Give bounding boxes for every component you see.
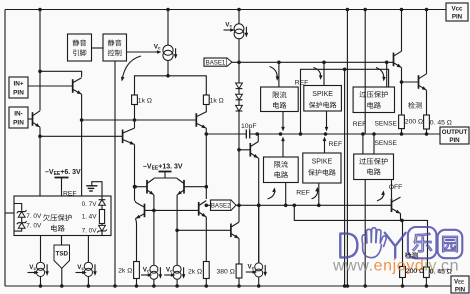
transistor Q5: [239, 142, 259, 160]
wire emitter rail: [154, 177, 177, 179]
annotation arrow into spike row2: [312, 187, 320, 199]
block SPIKE protect row2: [303, 153, 341, 183]
svg-text:2k Ω: 2k Ω: [188, 269, 202, 276]
zener Z1 7.0V: [17, 210, 42, 220]
wire Q1 collector link: [40, 71, 82, 77]
svg-text:Vc: Vc: [77, 264, 84, 271]
svg-text:OUTPUT: OUTPUT: [442, 129, 468, 136]
wire Q10 Q11 collectors: [154, 177, 177, 180]
label -VEE+13.3V: [143, 164, 183, 179]
svg-text:0. 45 Ω: 0. 45 Ω: [430, 120, 452, 127]
block mute pin 静音引脚: [68, 34, 92, 61]
svg-text:REF: REF: [296, 189, 310, 196]
annotation arrow into limiter row2: [268, 187, 277, 199]
wire mute link: [92, 47, 104, 49]
label SENSE row2: [375, 140, 398, 147]
current source I4 Vc: [76, 236, 97, 288]
wire mute control to current source: [127, 50, 162, 54]
wire Q1 emitter column: [80, 94, 84, 196]
wire mid rail: [257, 132, 440, 136]
wire R5 bottom: [401, 278, 405, 288]
resistor R10 380: [216, 264, 241, 278]
wire Q7 emitter: [426, 90, 428, 115]
current source I6 Vc: [164, 265, 185, 288]
resistor R1 1k: [132, 95, 152, 105]
svg-text:PIN: PIN: [449, 137, 460, 144]
wire Q4 emitter column: [205, 128, 209, 207]
zener Z3 7.0V: [82, 224, 107, 236]
svg-text:Vc: Vc: [248, 264, 255, 271]
annotation arrow into spike row1: [314, 68, 323, 81]
svg-text:Vc: Vc: [29, 264, 36, 271]
node right columns bottom: [343, 284, 349, 288]
label OFF: [389, 184, 403, 191]
wire base line y120: [82, 118, 197, 122]
resistor R9 2k: [188, 262, 209, 279]
wire sense lower link: [294, 205, 427, 267]
wire limiter row1 down arrow: [281, 112, 285, 132]
current source I1 Vc: [154, 8, 178, 78]
label REF row1: [295, 80, 309, 87]
pin box Vcc PIN: [446, 3, 468, 21]
label SENSE mid right: [375, 121, 398, 128]
wire Q8 emitter: [400, 214, 402, 221]
watermark url: [332, 258, 459, 275]
annotation arrow into ovp row2 OFF: [377, 190, 385, 201]
transistor Q2 (IN-): [28, 111, 41, 129]
resistor R3 200: [399, 115, 424, 129]
diode D4 0.7V: [82, 196, 106, 208]
wire Q5 collector: [255, 132, 259, 141]
wire ovp row2 risers: [363, 134, 374, 154]
svg-text:BASE1: BASE1: [206, 59, 226, 66]
svg-text:BASE2: BASE2: [211, 203, 231, 210]
node BASE2: [211, 200, 237, 210]
transistor Q6: [394, 51, 403, 69]
wire Q7 collector: [425, 8, 429, 74]
svg-text:TSD: TSD: [55, 251, 68, 258]
block TSD: [54, 236, 70, 288]
svg-text:–VEE+6. 3V: –VEE+6. 3V: [45, 169, 81, 177]
svg-text:Vc: Vc: [166, 267, 173, 274]
wire column x344: [344, 69, 346, 286]
block current limiter 限流电路 row1: [261, 87, 299, 112]
svg-text:0. 7V: 0. 7V: [82, 201, 98, 208]
label REF mid right: [353, 121, 367, 128]
svg-text:Vc: Vc: [225, 22, 232, 29]
block overvoltage protect 过压保护 row1: [353, 87, 394, 113]
wire Q10 emitter col: [152, 195, 156, 265]
wire Q9 base line: [177, 229, 231, 231]
wire riser to spike box: [323, 62, 325, 85]
wire Q9 emitter col: [238, 239, 240, 265]
diode D3: [236, 100, 243, 111]
wire R3 bottom: [401, 129, 403, 134]
svg-text:380 Ω: 380 Ω: [216, 269, 234, 276]
svg-text:PIN: PIN: [13, 120, 24, 127]
watermark logo DIY: [340, 227, 462, 258]
node mute column bottom: [113, 284, 117, 288]
wire spike row2 to base2 line: [317, 183, 321, 207]
wire REF stem: [61, 178, 63, 196]
wire lower 200 column: [402, 220, 404, 266]
pin box VEE PIN: [451, 276, 469, 294]
wire limiter row2 to base2 line: [284, 183, 288, 208]
svg-text:2k Ω: 2k Ω: [118, 268, 132, 275]
transistor Q11: [176, 179, 206, 197]
transistor Q12: [135, 202, 199, 220]
wire zener chain loop: [14, 204, 22, 232]
capacitor C1 10pF: [206, 123, 257, 139]
svg-text:SPIKE: SPIKE: [312, 159, 333, 166]
block SPIKE protect row1: [304, 86, 342, 112]
resistor R2 1k: [203, 95, 223, 105]
annotation arrow into limiter row1: [270, 67, 280, 82]
wire Q6 collector: [400, 8, 404, 52]
svg-text:1k Ω: 1k Ω: [138, 98, 152, 105]
wire column x365: [363, 8, 367, 288]
current source I3 Vc: [28, 236, 49, 288]
transistor Q3: [123, 128, 136, 146]
wire spike row1 down arrow: [325, 111, 329, 132]
wire riser to ovp box: [386, 62, 388, 87]
current source I2 Vc: [224, 8, 249, 63]
wire Q12 collector col: [135, 201, 136, 202]
wire Q9 collector: [238, 205, 240, 222]
ground symbol: [86, 182, 102, 196]
wire Q5 emitter column: [257, 158, 261, 263]
wire BASE1 line: [232, 61, 394, 65]
resistor R6 0.45 lower: [424, 267, 452, 278]
svg-text:OFF: OFF: [389, 184, 403, 191]
svg-text:–VEE+13. 3V: –VEE+13. 3V: [143, 164, 183, 172]
resistor R7 1.4V: [82, 205, 105, 223]
wire resistor top rail: [135, 76, 207, 95]
wire Vcc top rail: [5, 9, 446, 11]
svg-text:200 Ω: 200 Ω: [406, 268, 424, 275]
svg-text:SENSE: SENSE: [375, 121, 398, 128]
resistor R8 2k: [118, 262, 139, 279]
wire border to block: [5, 212, 14, 214]
svg-text:Vc: Vc: [143, 267, 150, 274]
wire BASE2 line: [206, 204, 391, 208]
wire mute control down: [114, 61, 116, 286]
block overvoltage protect 过压保护 row2: [354, 154, 394, 180]
svg-text:Vc: Vc: [154, 44, 161, 51]
wire R1 bottom: [134, 105, 136, 121]
wire left border: [4, 10, 6, 287]
wire R6 bottom: [425, 278, 429, 288]
label lower resistor overlay: [405, 252, 452, 275]
wire riser to limiter box: [278, 62, 280, 87]
wire diode column: [237, 111, 241, 207]
svg-text:Vcc: Vcc: [451, 6, 463, 13]
svg-text:VEE: VEE: [454, 279, 464, 286]
svg-text:PIN: PIN: [452, 14, 463, 21]
svg-text:200 Ω: 200 Ω: [405, 119, 423, 126]
transistor Q13: [199, 201, 208, 219]
svg-text:1. 4V: 1. 4V: [82, 214, 98, 221]
zener Z2 7.0V: [17, 221, 42, 229]
label REF bottom mid: [296, 189, 310, 196]
wire Q3 emitter column: [133, 145, 137, 201]
svg-text:SENSE: SENSE: [375, 140, 398, 147]
svg-text:IN-: IN-: [14, 111, 23, 118]
wire R9 bottom: [205, 279, 209, 288]
block mute control 静音控制: [103, 34, 127, 61]
transistor Q10: [133, 179, 155, 197]
wire VEE bottom rail: [5, 285, 451, 287]
transistor Q8: [392, 180, 402, 216]
wire R10 bottom: [237, 278, 241, 288]
diode D2: [236, 89, 243, 100]
pin box OUTPUT PIN: [440, 127, 469, 144]
block undervoltage 欠压保护电路: [14, 196, 111, 236]
transistor Q7: [419, 74, 428, 92]
wire Q3 collector: [134, 120, 136, 128]
svg-text:IN+: IN+: [13, 81, 23, 88]
wire R8 bottom: [135, 279, 139, 288]
current source I5 Vc: [141, 265, 162, 288]
wire base line y136: [40, 135, 123, 137]
block current limiter 限流电路 row2: [264, 157, 299, 183]
current source I7 Vc: [246, 205, 267, 288]
diode D1: [236, 62, 243, 88]
transistor Q9: [231, 222, 240, 240]
svg-text:PIN: PIN: [455, 287, 466, 294]
svg-text:PIN: PIN: [13, 90, 24, 97]
label detect 检测 bottom: [405, 252, 418, 258]
wire Q11 emitter col: [175, 195, 179, 265]
wire limiter row2 up arrow: [281, 137, 285, 158]
wire Q12 emitter col: [136, 219, 137, 262]
wire Q2 column down: [39, 136, 41, 196]
svg-text:7. 0V: 7. 0V: [26, 213, 42, 220]
svg-text:REF: REF: [329, 141, 343, 148]
annotation mute arc arrow: [120, 56, 141, 82]
wire Q2 emitter to node: [38, 127, 42, 138]
wire REF feed line: [301, 68, 389, 135]
wire column x347: [346, 8, 350, 286]
wire Q7 base link: [402, 81, 419, 83]
wire R2 bottom: [205, 105, 207, 113]
wire Q13 emitter col: [205, 217, 207, 262]
pin box IN- PIN: [9, 107, 28, 128]
wire spike row2 up arrow: [323, 137, 327, 154]
svg-text:7. 0V: 7. 0V: [26, 223, 42, 230]
svg-text:10pF: 10pF: [241, 123, 257, 130]
node BASE1: [204, 58, 232, 66]
resistor R4 0.45: [424, 115, 452, 129]
transistor Q1 (IN+): [28, 78, 82, 96]
label -VEE+6.3V: [45, 169, 81, 178]
svg-text:SPIKE: SPIKE: [312, 91, 333, 98]
wire x40 column: [38, 8, 42, 111]
wire R4 bottom: [426, 129, 428, 134]
label detect 检测 top: [408, 102, 422, 109]
annotation arrow into ovp row1: [376, 68, 386, 82]
svg-text:1k Ω: 1k Ω: [210, 98, 224, 105]
pin box IN+ PIN: [9, 77, 28, 98]
transistor Q4: [196, 112, 207, 130]
resistor R5 200 lower: [400, 267, 425, 278]
wire Q6 emitter: [400, 68, 404, 115]
svg-text:0. 45 Ω: 0. 45 Ω: [430, 269, 452, 276]
label REF row2: [329, 141, 343, 148]
svg-text:REF: REF: [353, 121, 367, 128]
label REF left: [63, 191, 77, 198]
svg-text:7. 0V: 7. 0V: [82, 228, 98, 235]
